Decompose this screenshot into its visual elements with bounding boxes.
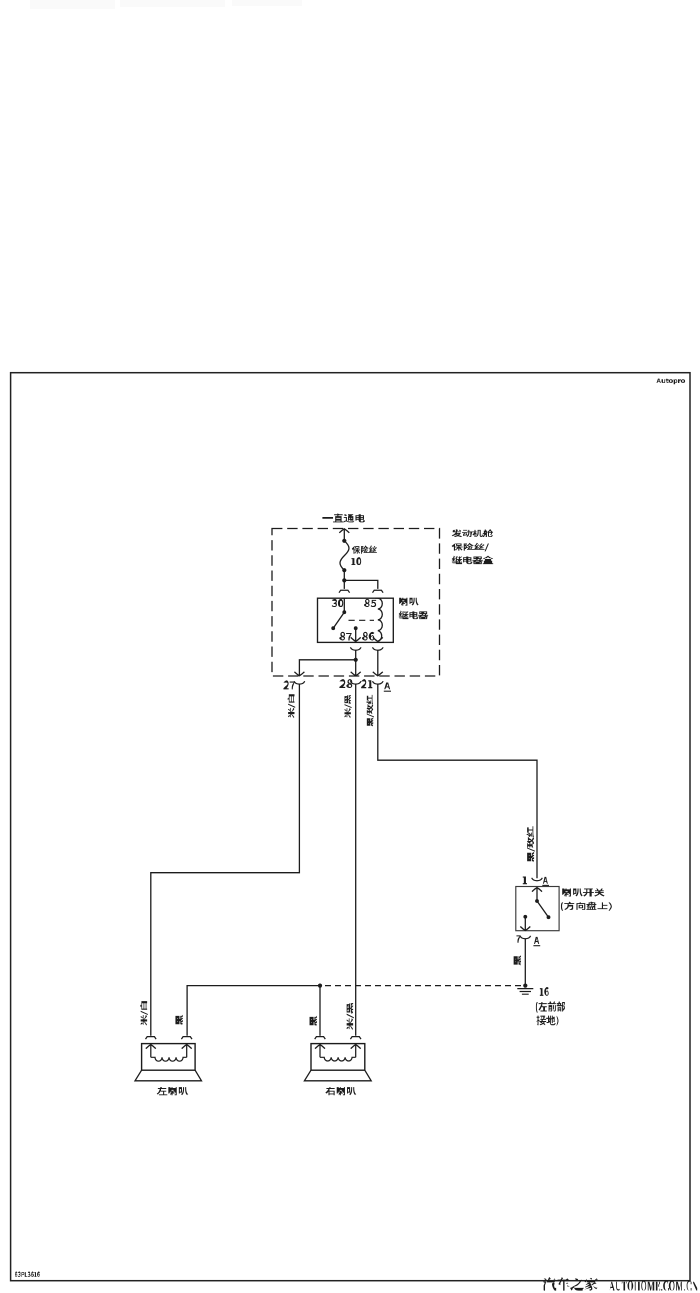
label 继电器盒 xyxy=(452,556,493,565)
arrow 86 exit xyxy=(373,637,383,641)
color 米/白 spk xyxy=(140,1001,148,1026)
ground G16 symbol xyxy=(517,988,533,990)
fuse F10 xyxy=(340,541,349,570)
pin tick 85 xyxy=(375,597,380,599)
label 继电器 xyxy=(399,611,429,620)
doc number 63PL3616 xyxy=(15,1271,40,1276)
actuator dashed link xyxy=(349,619,375,621)
pin cup 27 xyxy=(294,681,305,684)
wire right-spk black xyxy=(319,986,321,1036)
fuse/relay box (dashed) xyxy=(272,529,440,677)
underline xyxy=(533,945,540,947)
junction at ground xyxy=(523,984,527,988)
pin 85 xyxy=(364,599,376,607)
wire branch to 85 xyxy=(344,580,378,589)
terminal 30 cup xyxy=(339,590,350,593)
pin 21 xyxy=(361,679,372,688)
ground id 16 xyxy=(540,987,549,996)
junction xyxy=(342,568,346,572)
underline xyxy=(542,884,549,886)
junction xyxy=(354,658,358,662)
label 保险丝 xyxy=(352,545,377,554)
wire 21 (黑/玫红) xyxy=(378,684,537,878)
pin 30 xyxy=(332,599,344,607)
switch arm xyxy=(537,901,549,917)
underline xyxy=(384,690,391,692)
wire xyxy=(343,580,345,589)
right horn speaker xyxy=(315,1037,326,1040)
wire xyxy=(343,570,345,580)
left horn speaker xyxy=(146,1037,157,1040)
terminal cup 86 xyxy=(373,647,384,650)
label 发动机舱 xyxy=(452,529,493,537)
pin7 cup xyxy=(520,936,531,939)
junction xyxy=(342,610,346,614)
horn switch box xyxy=(516,887,559,931)
border frame xyxy=(11,373,690,1281)
color 黑/玫红 at switch xyxy=(526,826,534,862)
color 米/白 xyxy=(287,694,295,718)
wire 7 (黑) xyxy=(524,939,526,986)
color 黑/玫红 xyxy=(366,695,374,727)
pin 1 xyxy=(523,876,527,884)
value 10 xyxy=(351,557,361,565)
pin tick 30 xyxy=(342,597,347,599)
arrow pin1 in xyxy=(532,888,542,892)
faint header remnants xyxy=(30,0,302,9)
arrow 87 exit xyxy=(351,637,361,641)
contact dot xyxy=(331,626,335,630)
terminal 85 cup xyxy=(373,590,384,593)
watermark 汽车之家 xyxy=(542,1277,598,1291)
wire 27 (米/白) xyxy=(151,684,300,1036)
conn A label xyxy=(543,877,548,884)
pin 86 xyxy=(362,632,374,641)
relay coil xyxy=(378,598,383,641)
junction xyxy=(342,578,346,582)
wire 28 (米/黑) xyxy=(355,684,357,1036)
pin cup 28 xyxy=(350,681,361,684)
arrow pin27 exit xyxy=(294,672,304,676)
contact dot xyxy=(547,915,551,919)
ground solid wire xyxy=(187,986,320,1036)
ground dashed wire xyxy=(320,985,521,987)
label 接地) xyxy=(537,1016,559,1027)
color 米/黑 xyxy=(344,695,351,718)
wire 87 xyxy=(355,628,357,641)
junction xyxy=(535,899,539,903)
relay contact wire 30 xyxy=(343,598,345,612)
watermark AUTOHOME.COM.CN xyxy=(609,1280,698,1290)
arrow pin21 exit xyxy=(373,672,383,676)
label 右喇叭 xyxy=(325,1087,356,1095)
label 左喇叭 xyxy=(157,1087,188,1095)
arrow pin28 exit xyxy=(351,672,361,676)
pin cup 21 xyxy=(373,681,384,684)
junction xyxy=(318,984,322,988)
wire branch left xyxy=(299,660,355,675)
conn A label xyxy=(534,937,539,944)
label 保险丝/ xyxy=(452,543,489,552)
contact 7 dot xyxy=(523,915,527,919)
label 喇叭 xyxy=(399,598,419,606)
wire pin7 xyxy=(524,917,526,930)
pin 27 xyxy=(283,680,294,689)
label (左前部 xyxy=(536,1001,565,1013)
arrow pin7 exit xyxy=(520,927,530,931)
logo Autopro xyxy=(657,379,686,385)
horn relay box xyxy=(318,598,394,642)
label (方向盘上) xyxy=(561,901,612,910)
terminal cup 87 xyxy=(350,647,361,650)
wire 87 down xyxy=(355,650,357,659)
contact 87 dot xyxy=(354,626,358,630)
wire 86 down xyxy=(377,650,379,675)
wire 87 down xyxy=(355,660,357,675)
pin1 cup xyxy=(532,878,543,881)
switch wire xyxy=(536,888,538,901)
node B+ feed arrow xyxy=(339,529,349,533)
color 黑 xyxy=(514,955,521,965)
label 喇叭开关 xyxy=(562,889,605,897)
conn A label xyxy=(384,682,390,689)
color 黑 left xyxy=(310,1016,317,1026)
label 一直通电 xyxy=(322,513,365,522)
pin 87 xyxy=(339,632,352,641)
pin 7 xyxy=(516,935,520,942)
color 黑 spk xyxy=(175,1015,182,1025)
wire xyxy=(343,529,345,541)
color 米/黑 right xyxy=(347,1003,354,1030)
junction xyxy=(342,539,346,543)
relay switch arm xyxy=(333,612,344,628)
pin 28 xyxy=(339,679,352,688)
